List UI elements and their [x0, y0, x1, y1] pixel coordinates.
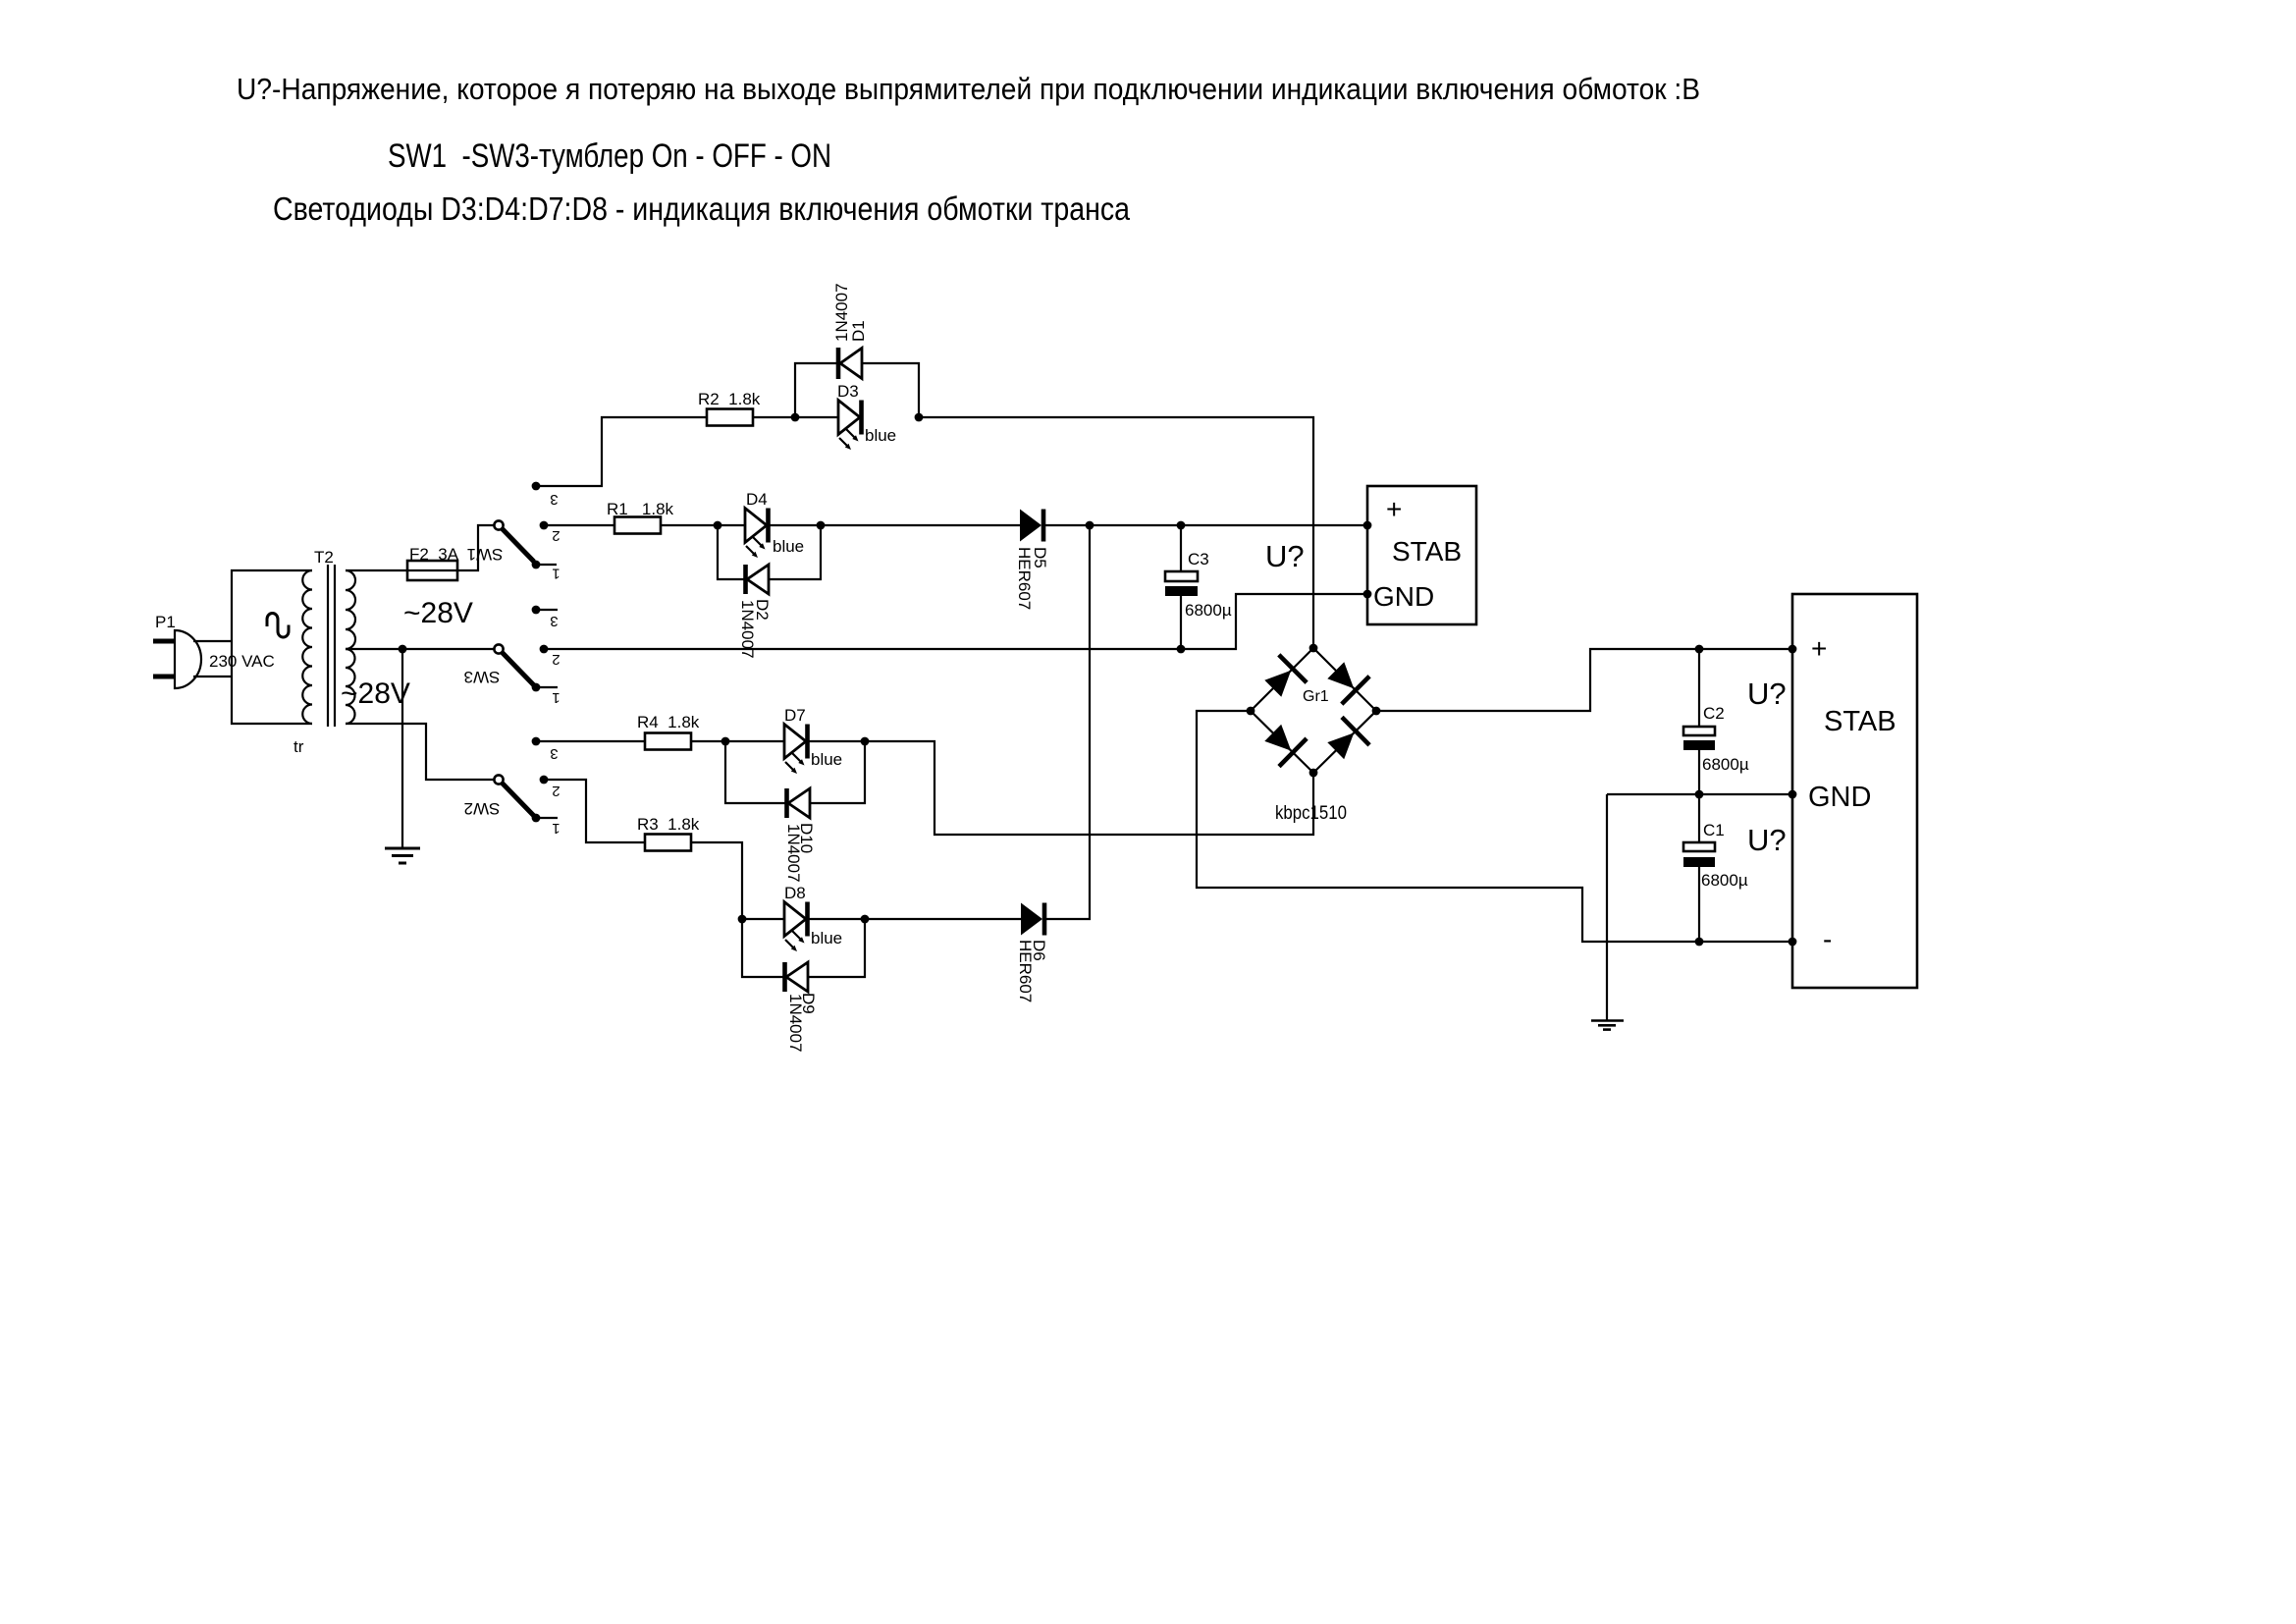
svg-text:U?-Напряжение, которое я потер: U?-Напряжение, которое я потеряю на выхо… — [237, 72, 1700, 106]
svg-text:3: 3 — [550, 613, 558, 629]
fuse F2 — [407, 545, 459, 580]
wire D3 to bridge top — [919, 417, 1313, 648]
switch SW3 — [464, 606, 561, 706]
wire D5 to STAB1 plus — [1043, 524, 1367, 526]
node STAB1 gnd pin — [1363, 590, 1372, 599]
node STAB1 plus pin — [1363, 521, 1372, 530]
svg-text:3: 3 — [550, 745, 558, 762]
node D5 out — [1086, 521, 1095, 530]
svg-text:2: 2 — [552, 527, 560, 544]
node D8 left — [738, 915, 747, 924]
wire fuse to SW1 common — [457, 525, 494, 570]
svg-text:SW1: SW1 — [467, 545, 504, 564]
svg-text:D7: D7 — [784, 706, 806, 725]
node bridge right — [1372, 707, 1381, 716]
svg-text:HER607: HER607 — [1015, 547, 1034, 610]
svg-text:C3: C3 — [1188, 550, 1209, 568]
node C2 bottom / gnd row — [1695, 790, 1704, 799]
svg-text:D3: D3 — [837, 382, 859, 401]
node bridge top — [1309, 644, 1318, 653]
diode D1 — [832, 283, 868, 379]
capacitor C2 — [1683, 649, 1749, 794]
svg-text:1N4007: 1N4007 — [786, 994, 805, 1053]
wire SW1 pin3 to R2 row — [536, 417, 707, 486]
svg-text:F2 3A: F2 3A — [409, 545, 459, 564]
wire D6 up to D5 node — [1044, 525, 1090, 919]
resistor R4 — [637, 713, 700, 750]
node C3 top — [1177, 521, 1186, 530]
svg-text:~28V: ~28V — [341, 677, 410, 710]
svg-text:T2: T2 — [314, 548, 334, 567]
svg-text:6800µ: 6800µ — [1185, 601, 1232, 620]
node tap junction — [399, 645, 407, 654]
svg-text:2: 2 — [552, 651, 560, 668]
bridge diode lower-left — [1264, 725, 1291, 751]
svg-text:2: 2 — [552, 783, 560, 799]
sine symbol — [267, 614, 289, 638]
svg-text:6800µ: 6800µ — [1702, 755, 1749, 774]
svg-text:1: 1 — [552, 566, 560, 582]
node D7 left — [721, 737, 730, 746]
wire SW3 pin2 row to C3 bottom and GND1 — [544, 594, 1367, 649]
bridge Gr1 — [1251, 648, 1376, 824]
diode D5 — [1015, 510, 1049, 611]
svg-text:SW1 -SW3-тумблер On - OFF - O: SW1 -SW3-тумблер On - OFF - ON — [388, 137, 831, 175]
svg-text:GND: GND — [1808, 782, 1871, 813]
node bridge bottom — [1309, 769, 1318, 778]
transformer core — [328, 565, 335, 727]
node STAB2 plus pin — [1789, 645, 1797, 654]
svg-text:blue: blue — [811, 929, 842, 947]
wire gnd row — [1607, 793, 1792, 795]
wire R4 to D7 — [691, 740, 784, 742]
node D8 right — [861, 915, 870, 924]
wire gnd stem — [1606, 794, 1608, 1020]
diode D6 — [1016, 903, 1048, 1003]
bridge diode upper-right — [1327, 662, 1354, 688]
svg-text:R4 1.8k: R4 1.8k — [637, 713, 700, 731]
svg-text:blue: blue — [773, 537, 804, 556]
primary winding — [302, 570, 312, 724]
svg-text:U?: U? — [1265, 539, 1305, 573]
svg-text:GND: GND — [1373, 581, 1434, 612]
diode D10 — [784, 788, 816, 883]
svg-text:blue: blue — [865, 426, 896, 445]
ground left — [385, 848, 420, 863]
svg-text:D4: D4 — [746, 490, 768, 509]
svg-text:3: 3 — [550, 491, 558, 508]
STAB1 box — [1367, 486, 1476, 624]
svg-text:Gr1: Gr1 — [1303, 688, 1329, 705]
diode D9 — [785, 962, 819, 1053]
svg-text:C1: C1 — [1703, 821, 1725, 839]
svg-text:1: 1 — [552, 820, 560, 837]
node D7 right — [861, 737, 870, 746]
node D3 right — [915, 413, 924, 422]
node STAB2 minus pin — [1789, 938, 1797, 947]
node C1 bottom — [1695, 938, 1704, 947]
svg-text:STAB: STAB — [1392, 536, 1462, 567]
secondary winding upper — [346, 570, 355, 649]
LED D4 — [745, 490, 804, 558]
wire SW2 pin3 to R4 — [536, 740, 645, 742]
svg-text:STAB: STAB — [1824, 706, 1896, 737]
STAB2 box — [1792, 594, 1917, 988]
svg-text:6800µ: 6800µ — [1701, 871, 1748, 890]
svg-text:+: + — [1386, 494, 1402, 524]
wire R2 to D3 node — [753, 416, 838, 418]
diode D10 branch wires — [725, 741, 785, 803]
node bridge left — [1247, 707, 1255, 716]
switch SW2 — [464, 737, 561, 837]
switch SW1 — [467, 482, 561, 582]
svg-text:-: - — [1823, 924, 1832, 954]
svg-text:1: 1 — [552, 689, 560, 706]
wire secondary tap to SW3 — [346, 648, 494, 650]
wire plug to primary bottom — [193, 676, 232, 677]
svg-text:R3 1.8k: R3 1.8k — [637, 815, 700, 834]
resistor R3 — [637, 815, 700, 851]
wire D7 to bridge bottom — [809, 741, 1313, 835]
svg-text:1N4007: 1N4007 — [832, 283, 851, 342]
bridge diode upper-left — [1264, 671, 1291, 697]
resistor R2 — [698, 390, 761, 426]
svg-text:tr: tr — [294, 737, 304, 756]
svg-text:D1: D1 — [849, 320, 868, 342]
wire bridge right to STAB2 plus — [1376, 649, 1792, 711]
svg-text:230 VAC: 230 VAC — [209, 652, 275, 671]
svg-text:Светодиоды D3:D4:D7:D8 - индик: Светодиоды D3:D4:D7:D8 - индикация включ… — [273, 190, 1131, 227]
svg-text:U?: U? — [1747, 823, 1787, 857]
ground right — [1591, 1021, 1624, 1030]
svg-text:P1: P1 — [155, 613, 176, 631]
svg-text:C2: C2 — [1703, 704, 1725, 723]
wire R3 to D8 — [691, 842, 784, 919]
plug P1 — [153, 613, 201, 688]
transformer T2 primary loop — [232, 570, 312, 724]
node D3 left — [791, 413, 800, 422]
svg-text:R2 1.8k: R2 1.8k — [698, 390, 761, 408]
capacitor C3 — [1165, 525, 1232, 649]
wire secondary bottom to SW2 — [346, 724, 494, 780]
wire bridge left loop to minus row — [1197, 711, 1792, 942]
svg-text:D8: D8 — [784, 884, 806, 902]
LED D8 — [784, 884, 842, 951]
svg-text:kbpc1510: kbpc1510 — [1275, 803, 1347, 824]
wire D4 node to D5 — [770, 524, 1020, 526]
svg-text:U?: U? — [1747, 677, 1787, 711]
svg-text:~28V: ~28V — [403, 597, 473, 629]
svg-text:HER607: HER607 — [1016, 940, 1035, 1002]
resistor R1 — [607, 500, 674, 534]
diode D9 branch wires — [742, 919, 783, 977]
secondary winding lower — [346, 649, 355, 724]
svg-text:+: + — [1811, 633, 1827, 664]
diode D2 — [738, 565, 772, 659]
diode D2 branch wires — [718, 525, 744, 579]
node D4 left — [714, 521, 722, 530]
capacitor C1 — [1683, 794, 1748, 942]
wire SW1 pin2 to R1 — [544, 524, 614, 526]
svg-text:1N4007: 1N4007 — [784, 824, 803, 883]
svg-text:blue: blue — [811, 750, 842, 769]
wire tap to ground — [401, 649, 403, 848]
svg-text:SW3: SW3 — [464, 668, 501, 686]
node D4 right — [817, 521, 826, 530]
LED D7 — [784, 706, 842, 774]
wire plug to primary top — [193, 640, 232, 642]
wire SW2 pin2 to R3 — [544, 780, 645, 842]
svg-text:R1 1.8k: R1 1.8k — [607, 500, 674, 518]
bridge diode lower-right — [1327, 732, 1354, 759]
wire D8 to D6 — [809, 918, 1021, 920]
diode D1 branch wires — [795, 363, 837, 417]
node C2 top — [1695, 645, 1704, 654]
svg-text:1N4007: 1N4007 — [738, 600, 757, 659]
node C3 bottom — [1177, 645, 1186, 654]
node STAB2 gnd pin — [1789, 790, 1797, 799]
wire secondary top to fuse — [346, 569, 407, 571]
wire R1 to D4 — [661, 524, 745, 526]
svg-text:SW2: SW2 — [464, 799, 501, 818]
LED D3 — [837, 382, 896, 450]
